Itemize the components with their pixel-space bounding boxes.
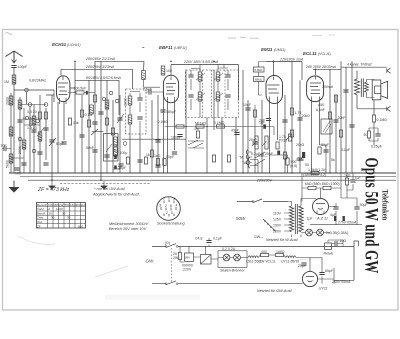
- wire: vertical x346 speaker line drop: [345, 67, 347, 173]
- svg-text:Meßinstrument 300Ω/V: Meßinstrument 300Ω/V: [109, 222, 149, 226]
- wire: osc label 6,8/23MHz lead: [53, 90, 55, 102]
- svg-text:TA: TA: [242, 161, 247, 165]
- svg-text:1µF: 1µF: [307, 217, 313, 221]
- wire: primary bottom: [356, 95, 358, 109]
- capacitor 20nF: [252, 142, 257, 144]
- svg-text:7kΩ: 7kΩ: [344, 174, 351, 178]
- svg-text:43nF: 43nF: [231, 129, 239, 133]
- svg-text:(UM11): (UM11): [274, 48, 285, 52]
- svg-text:0,1: 0,1: [114, 149, 119, 153]
- svg-text:280/285V: 280/285V: [256, 178, 273, 182]
- wire: resistor drop: [180, 246, 184, 262]
- wire: horizontal link y125: [24, 124, 40, 126]
- faint smudge row top: [228, 37, 259, 40]
- capacitor 30µF: [354, 207, 359, 209]
- svg-text:1nF: 1nF: [1, 144, 7, 148]
- svg-text:38µF: 38µF: [118, 166, 126, 170]
- label: bus voltages: [85, 57, 372, 80]
- switch contact osc c: [115, 99, 118, 102]
- pot arrows: [252, 141, 267, 146]
- svg-text:0,1µF: 0,1µF: [341, 148, 350, 152]
- svg-text:165Ω: 165Ω: [276, 250, 285, 254]
- wire: vertical x214: [213, 70, 215, 130]
- transformer W secondary coil: [299, 206, 303, 232]
- capacitor trimmer 59+20pF: [17, 120, 22, 122]
- capacitor 50pF under tube: [172, 152, 177, 154]
- wire: primary top feed: [356, 71, 358, 79]
- svg-text:ECH11: ECH11: [52, 42, 67, 47]
- coil antenna primary: [12, 75, 16, 84]
- resistor 25 2W: [178, 253, 181, 260]
- svg-text:50pF: 50pF: [166, 155, 174, 159]
- svg-text:2: 2: [166, 211, 168, 215]
- svg-text:50W: 50W: [236, 216, 246, 221]
- switch contact circled osc: [123, 142, 127, 146]
- svg-text:(UCH11): (UCH11): [67, 43, 81, 47]
- capacitor 0,1: [155, 140, 160, 142]
- svg-text:280 285V 28/30mA: 280 285V 28/30mA: [305, 65, 337, 69]
- wire: chain links: [258, 255, 286, 258]
- switch contact circled 2: [25, 116, 28, 119]
- coil L1 2000: [9, 96, 13, 105]
- wire: res stub: [270, 155, 288, 173]
- extra right-mid density: [51, 61, 354, 182]
- svg-text:0,1µF: 0,1µF: [213, 237, 222, 241]
- svg-text:125V: 125V: [273, 218, 282, 222]
- svg-text:100: 100: [15, 172, 21, 176]
- lamp: dial W b: [317, 229, 324, 236]
- resistor 165 chain: [276, 253, 284, 256]
- svg-text:1M: 1M: [4, 80, 9, 84]
- wire: screen bus: [75, 80, 119, 115]
- variable arrow: [117, 114, 124, 123]
- wire: horizontal link y158: [11, 157, 24, 159]
- resistor box 68k EM grid: [254, 77, 265, 82]
- potentiometer tone: [288, 134, 291, 141]
- variable capacitor arrow left: [49, 138, 56, 146]
- IF transformer dashed box 1: [126, 89, 147, 134]
- plug TA lower: [246, 160, 247, 165]
- wire: vertical x113: [112, 100, 114, 173]
- potentiometer volume b: [265, 136, 268, 149]
- svg-text:1kΩ: 1kΩ: [154, 154, 161, 158]
- oscillator padder loop: [104, 134, 119, 162]
- socket pin numbers: [160, 196, 178, 215]
- capacitor dark blob a: [334, 216, 336, 221]
- coil IF2b: [198, 92, 202, 101]
- capacitor 10 ohm link: [335, 241, 337, 246]
- capacitor x352 mid: [349, 125, 354, 127]
- wire: osc coil to EBF cathode line: [144, 80, 161, 88]
- capacitor 65µF: [319, 273, 324, 275]
- resistor box 6,8k EM grid: [254, 67, 265, 72]
- tube EM11 (magic eye): [266, 76, 283, 104]
- wire: lamp chain: [218, 257, 248, 259]
- svg-text:ECL11: ECL11: [303, 51, 317, 56]
- resistor cathode 150: [318, 147, 321, 154]
- capacitor 25µF chain: [301, 263, 306, 265]
- speaker magnet rect: [372, 80, 381, 100]
- coil choke: [105, 100, 109, 109]
- resistor 1,2k: [328, 112, 331, 119]
- coil osc grid: [90, 105, 94, 114]
- resistor EBF k1: [156, 159, 159, 166]
- wire: vertical x255: [254, 127, 256, 174]
- resistor 0,1M horizontal a: [176, 125, 184, 128]
- wire: x95 lower: [94, 130, 96, 173]
- resistor 0,3M vertical: [212, 155, 215, 162]
- svg-text:2000: 2000: [18, 146, 22, 154]
- wire: chain end to UY11: [296, 258, 310, 272]
- wire: vertical x101: [100, 61, 102, 180]
- socket pins: [161, 200, 176, 217]
- potentiometer volume a: [255, 136, 258, 149]
- svg-text:300mA: 300mA: [322, 85, 334, 89]
- speaker cone: [381, 81, 388, 98]
- svg-text:GW—: GW—: [254, 235, 264, 239]
- switch GW top: [166, 244, 176, 248]
- wire: x255 upper ext: [254, 105, 256, 127]
- svg-text:A50: A50: [318, 103, 324, 107]
- capacitor mid left: [37, 152, 42, 154]
- wire: horizontal link y104: [20, 104, 46, 106]
- resistor 86 ohm: [323, 186, 331, 189]
- svg-text:C4,8: C4,8: [195, 237, 202, 241]
- svg-text:4 kanal. TFB/a2: 4 kanal. TFB/a2: [347, 63, 372, 67]
- lamp: GW dial b: [234, 254, 241, 261]
- resistor 10k: [68, 118, 71, 125]
- box NTC component: [321, 119, 332, 134]
- svg-text:Skalen-Brenner: Skalen-Brenner: [220, 269, 245, 273]
- svg-text:110V: 110V: [273, 212, 282, 216]
- label tap voltages: [273, 212, 282, 234]
- svg-text:7: 7: [163, 197, 165, 201]
- coil IF1b: [128, 115, 132, 124]
- rectifier AZ11: [313, 199, 329, 215]
- resistor x285 low: [283, 152, 286, 159]
- wire: ECL plate line: [313, 68, 341, 70]
- capacitor 4µF: [333, 207, 338, 209]
- capacitor left low a: [14, 168, 19, 170]
- resistor 1,75M: [290, 108, 293, 115]
- switch contact a: [25, 88, 29, 92]
- resistor 0,1M right: [372, 115, 375, 122]
- resistor NF mid: [196, 125, 204, 128]
- switch wave cluster: [188, 140, 204, 148]
- svg-text:Opus 50 W und GW: Opus 50 W und GW: [361, 158, 381, 274]
- resistor 0,2M: [93, 95, 96, 102]
- svg-text:86Ω (1300): 86Ω (1300): [322, 182, 340, 186]
- resistor above bus x128: [126, 157, 129, 164]
- svg-text:Abgleichwerte für GW-Ausf.: Abgleichwerte für GW-Ausf.: [92, 193, 140, 197]
- wire: HT secondary bottom: [300, 235, 302, 238]
- svg-text:5000: 5000: [6, 160, 10, 168]
- transformer W core: [295, 204, 297, 234]
- svg-text:6: 6: [170, 204, 172, 208]
- resistor ECL screen: [334, 95, 337, 102]
- alignment table grid: [37, 203, 86, 229]
- svg-text:500: 500: [78, 224, 83, 228]
- wire: HT secondary top to AZ11: [301, 199, 316, 207]
- svg-text:ZF: ZF: [37, 224, 41, 228]
- coil L2 2000: [9, 127, 13, 136]
- svg-text:20nF: 20nF: [338, 116, 346, 120]
- svg-text:5k: 5k: [331, 158, 335, 162]
- capacitor IF2a: [188, 75, 193, 77]
- capacitor 38nF bottom: [118, 164, 123, 166]
- wire: vertical x285: [284, 95, 286, 173]
- plug: speaker top: [387, 68, 391, 73]
- coil osc feedback: [161, 66, 165, 75]
- capacitor 2µF EM cathode: [266, 119, 271, 121]
- wire: link antenna to ECH grid: [14, 90, 54, 173]
- coil L4: [18, 100, 22, 109]
- tiny stray mark left of EBF label: [142, 47, 144, 49]
- wire: HT bus second to IF box1: [61, 69, 133, 89]
- plug TA2 upper: [248, 157, 249, 162]
- svg-text:NF1kΩ: NF1kΩ: [195, 122, 206, 126]
- wire: IF2 right internals: [218, 64, 228, 118]
- coil osc anode: [142, 71, 146, 80]
- horizontal link y139: [122, 138, 186, 140]
- svg-text:50: 50: [364, 133, 368, 137]
- svg-text:100,5pF: 100,5pF: [74, 87, 87, 91]
- capacitor 7µF: [350, 180, 355, 182]
- resistor anode load: [76, 91, 84, 94]
- resistor 0,1M: [80, 110, 83, 117]
- svg-text:Telefunken: Telefunken: [380, 190, 390, 221]
- tube ECL11: [307, 76, 324, 103]
- svg-text:(0,5): (0,5): [290, 164, 297, 168]
- resistor osc: [105, 118, 108, 125]
- switch contact d: [44, 103, 48, 107]
- svg-text:280/280V 3/23mA: 280/280V 3/23mA: [85, 65, 115, 69]
- svg-text:Netzteil für W-Ausf.: Netzteil für W-Ausf.: [266, 238, 299, 242]
- svg-text:150V: 150V: [273, 224, 282, 228]
- capacitor antenna 100pF: [11, 66, 16, 68]
- crease curve faint right: [288, 259, 322, 262]
- switch contact osc a: [102, 97, 105, 100]
- resistor 50 small: [367, 131, 370, 138]
- svg-text:0,1MΩ: 0,1MΩ: [158, 120, 169, 124]
- capacitor electrolytic dark ECL: [302, 152, 305, 158]
- plug TA mid: [246, 154, 247, 159]
- capacitor x46 low: [43, 163, 48, 165]
- capacitor 6,25µF: [375, 134, 380, 136]
- wire: vertical x374 down: [373, 100, 375, 145]
- capacitor 2µF dark det: [277, 151, 280, 155]
- wire: vertical x24: [23, 108, 25, 173]
- ground small x104: [101, 181, 107, 189]
- wire: vertical x341 bus drop: [340, 61, 342, 173]
- wire: primary ends: [288, 202, 292, 238]
- svg-text:100µ: 100µ: [120, 151, 128, 155]
- svg-text:1: 1: [168, 196, 170, 200]
- tube socket circle: [157, 197, 181, 221]
- svg-text:100: 100: [166, 69, 172, 73]
- svg-text:180µF: 180µF: [171, 136, 181, 140]
- variable arrow in loop: [106, 144, 112, 152]
- svg-text:GW: GW: [146, 259, 155, 264]
- coil L6 2000: [38, 132, 42, 141]
- transformer output secondary coil: [365, 82, 369, 92]
- capacitor electrolytic dark: [86, 91, 88, 95]
- svg-text:Relais: Relais: [324, 252, 334, 256]
- capacitor 50nF EM: [282, 120, 287, 122]
- capacitor x300 low: [297, 158, 302, 160]
- coil IF1a: [128, 96, 132, 105]
- wire: EM grid boxes links: [259, 62, 267, 96]
- svg-text:400: 400: [261, 250, 267, 254]
- wire: right cluster links: [369, 128, 378, 141]
- capacitor dark osc: [114, 155, 117, 159]
- capacitor 180µF b: [177, 135, 182, 137]
- svg-text:280/285V 2/2,1mA: 280/285V 2/2,1mA: [85, 57, 116, 61]
- box Urdox resistor: [201, 255, 212, 265]
- resistor 1k: [150, 150, 153, 157]
- resistor 2k: [87, 120, 90, 127]
- wire: vertical x158: [157, 95, 159, 173]
- svg-text:7µF: 7µF: [355, 176, 361, 180]
- IF transformer dashed box 2 (big): [186, 70, 239, 118]
- wire: main ground bus: [9, 172, 396, 174]
- crease curve faint left: [18, 236, 55, 244]
- wire: speaker feed line: [341, 66, 387, 68]
- svg-text:2: 2: [165, 204, 167, 208]
- svg-text:0,1MΩ: 0,1MΩ: [377, 118, 388, 122]
- capacitor IF1a: [137, 98, 142, 100]
- coil heater chain 2: [286, 256, 296, 258]
- coil L5 2000: [32, 116, 36, 125]
- wire: vertical x163.5: [163, 92, 165, 173]
- resistor 65 ohm: [308, 186, 316, 189]
- resistor EM 1M: [276, 142, 279, 149]
- svg-text:10nF: 10nF: [243, 103, 251, 107]
- capacitor 20kΩ tone: [297, 118, 302, 120]
- capacitor dark blob b: [343, 216, 345, 221]
- wire: vertical x46: [46, 95, 54, 160]
- capacitor IF2d: [225, 95, 230, 97]
- wire: vertical x222: [221, 118, 223, 174]
- wire: EBF plate to bus: [170, 65, 172, 76]
- capacitor 100pF mid: [98, 112, 103, 114]
- svg-text:220/180V 1mA: 220/180V 1mA: [279, 57, 304, 61]
- wire: osc anode drop x143.5: [143, 61, 146, 70]
- wire: EBF legs down: [168, 103, 175, 173]
- switch contact circled 3: [32, 149, 35, 152]
- switch osc cluster low: [255, 152, 265, 165]
- switch GW bottom: [166, 281, 176, 285]
- plug TA2 lower: [248, 163, 249, 168]
- svg-text:0,1M: 0,1M: [85, 113, 93, 117]
- box Relais on mains: [325, 243, 332, 250]
- svg-text:4: 4: [176, 204, 178, 208]
- wire: EM11 plate to bus: [273, 62, 275, 77]
- resistor 500 vertical above bus: [286, 158, 289, 165]
- wire: vertical x152: [151, 100, 153, 173]
- wire: vertical x248: [247, 100, 249, 173]
- wire: vertical x95: [94, 61, 96, 130]
- extra mid density: [86, 129, 161, 173]
- svg-text:68kΩ: 68kΩ: [255, 78, 263, 82]
- svg-text:25µF: 25µF: [298, 264, 306, 268]
- wire: vertical x262: [261, 100, 263, 173]
- voltage selector dots: [264, 220, 275, 231]
- svg-text:65µF: 65µF: [325, 269, 333, 273]
- svg-text:- A Z 11: - A Z 11: [315, 217, 328, 221]
- switch gang dashed link: [171, 248, 173, 282]
- wire: secondary bottom bus: [28, 179, 396, 181]
- svg-text:3,3 20: 3,3 20: [27, 110, 37, 114]
- wire: vertical x70 plate: [70, 61, 75, 173]
- capacitor x107 low: [104, 155, 109, 157]
- wire: GW mains bottom line: [152, 283, 303, 285]
- junction dots on buses: [51, 61, 331, 182]
- svg-text:5: 5: [171, 211, 173, 215]
- wire: dashed heater bus segment: [60, 183, 150, 185]
- crease curve faint mid: [95, 266, 128, 277]
- faint smudge top right: [312, 34, 335, 37]
- svg-text:Netzteil für GW-Ausf.: Netzteil für GW-Ausf.: [257, 289, 293, 293]
- capacitor osc grid: [92, 122, 97, 124]
- svg-text:30: 30: [51, 216, 55, 220]
- resistor 0,7M: [290, 130, 293, 137]
- svg-text:30: 30: [67, 216, 71, 220]
- resistor 1,5k top row: [311, 171, 319, 174]
- wire: vertical x40: [39, 95, 41, 173]
- capacitor IF2b: [188, 95, 193, 97]
- wire: middle gray bus: [20, 176, 396, 178]
- resistor 7k small: [345, 178, 348, 185]
- capacitor 100pF bottom: [137, 160, 142, 162]
- wire: GW mains top line: [152, 245, 354, 247]
- svg-text:50pF: 50pF: [56, 142, 64, 146]
- svg-text:85/185V 4,5/57/5,8mA: 85/185V 4,5/57/5,8mA: [86, 76, 121, 80]
- resistor 400 chain: [261, 253, 269, 256]
- svg-text:UY11: UY11: [319, 287, 328, 291]
- svg-text:TA: TA: [239, 156, 244, 160]
- wire: vertical x89: [88, 80, 90, 173]
- coil IF2d: [216, 92, 220, 101]
- wire: vertical x120: [119, 95, 121, 173]
- wire: vertical x326: [320, 145, 327, 173]
- capacitor x248 upper: [245, 108, 250, 110]
- wire: cap links to AZ output: [329, 198, 358, 225]
- wire: vertical x52: [51, 95, 53, 180]
- svg-text:1k: 1k: [146, 153, 150, 157]
- svg-text:6,8kΩ: 6,8kΩ: [255, 68, 264, 72]
- svg-text:270V 65mA: 270V 65mA: [337, 221, 357, 225]
- svg-text:GW—: GW—: [258, 154, 268, 158]
- wire: right vertical drop GW: [334, 241, 359, 280]
- box DRV regulator: [185, 253, 194, 262]
- wire: vertical x34: [33, 105, 35, 174]
- svg-text:20kΩ: 20kΩ: [296, 143, 305, 147]
- capacitor above bus x158: [155, 165, 160, 167]
- wire: urdox link: [206, 246, 218, 259]
- wire: vertical x207: [206, 118, 208, 174]
- svg-text:50: 50: [305, 163, 309, 167]
- extra left density: [6, 105, 49, 176]
- wire: mains feed lines W: [237, 201, 288, 203]
- capacitor 300mA cap: [343, 90, 348, 92]
- svg-text:EM11: EM11: [261, 47, 273, 52]
- resistor 50k vertical: [227, 155, 230, 162]
- svg-text:1,3 20: 1,3 20: [27, 126, 37, 130]
- small junction dots: [185, 126, 187, 128]
- svg-text:0,1MΩ: 0,1MΩ: [214, 121, 225, 125]
- wire: vertical x133 below box: [130, 133, 140, 173]
